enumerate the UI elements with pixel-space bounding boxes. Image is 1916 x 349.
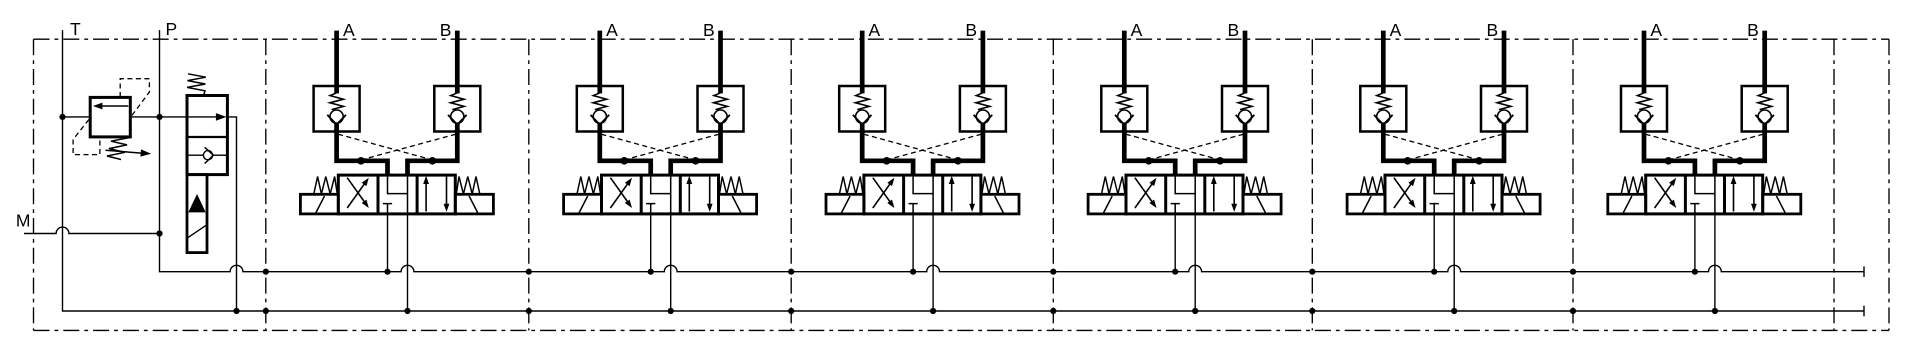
section 4: valve centre position (A-B-T joined, P blocked) [1171, 175, 1196, 214]
section divider 2 (dash-dot) [528, 39, 530, 330]
section 4: work port A line [1122, 31, 1127, 86]
section 4: junction dot on A line [1145, 157, 1153, 165]
section divider 1 (dash-dot) [265, 39, 267, 330]
section 4: pilot line A to B-side junction (dashed) [1126, 134, 1220, 160]
section 5: pilot line B to A-side junction (dashed) [1408, 134, 1503, 160]
section 1 port B: shock/anti-cavitation valve box [434, 86, 480, 132]
section 6: left solenoid box [1608, 194, 1646, 214]
section 4 port A: outlet stub [1122, 124, 1127, 133]
section 5 port B: port stub into box [1502, 85, 1507, 93]
section 1: valve centre position (A-B-T joined, P blocked) [383, 175, 408, 214]
section 6: valve left position crossed-flow arrows [1655, 184, 1672, 208]
divider 3 dot on P rail [788, 269, 794, 275]
T port line and tank return rail [63, 30, 1865, 311]
junction dot on P line [156, 114, 162, 120]
section 6: valve right position straight-flow arrows [1733, 184, 1735, 212]
section 4: valve left position crossed-flow arrows [1135, 184, 1152, 208]
section 6: P supply line to pressure rail [1694, 214, 1696, 272]
section 5 port A: relief spring [1377, 93, 1391, 110]
section 3: valve left position crossed-flow arrows [873, 184, 890, 208]
section 1: junction dot on A line [357, 157, 365, 165]
section 3: valve centre position (A-B-T joined, P blocked) [909, 175, 934, 214]
section 1: valve right position straight-flow arrows [425, 184, 427, 212]
divider 3 dot on T rail [788, 308, 794, 314]
svg-text:A: A [343, 20, 355, 40]
section divider 6 (dash-dot) [1572, 39, 1574, 330]
inlet outlet line to tank rail [227, 117, 236, 311]
section 1 port A: port stub into box [334, 85, 339, 93]
tank rail end plug [1863, 306, 1865, 317]
section 4 port A: shock/anti-cavitation valve box [1101, 86, 1147, 132]
svg-text:A: A [869, 20, 881, 40]
section 6 port B: port stub into box [1762, 85, 1767, 93]
section 2 port B: outlet stub [718, 124, 723, 133]
section 5 port A: outlet stub [1381, 124, 1386, 133]
section 6 port A: port stub into box [1642, 85, 1647, 93]
inlet element spring on top [187, 74, 206, 95]
relief valve port to P line [130, 116, 159, 118]
relief valve pilot line upper (dashed) [120, 79, 149, 117]
section 4: junction dot on B line [1216, 157, 1224, 165]
section 6 port A: relief spring [1637, 93, 1651, 110]
section 4: thick work line B to valve [1195, 129, 1245, 176]
svg-text:A: A [1390, 20, 1402, 40]
svg-text:P: P [165, 19, 177, 39]
section 4: left solenoid box [1088, 194, 1126, 214]
section 6: 4/3 directional valve body [1646, 175, 1763, 214]
section 3: right solenoid box [981, 194, 1019, 214]
section 3: work port A line [860, 31, 865, 86]
svg-text:B: B [965, 20, 977, 40]
svg-text:B: B [1486, 20, 1498, 40]
section 3 port B: relief spring [976, 93, 990, 110]
section 6: valve centre position (A-B-T joined, P blocked) [1690, 175, 1715, 214]
section 2 port B: shock/anti-cavitation valve box [698, 86, 744, 132]
section 6: right return spring [1764, 177, 1788, 195]
section 3 port B: outlet stub [981, 124, 986, 133]
section 6 port B: relief spring [1758, 93, 1772, 110]
section 1 port B: check ball circle [451, 110, 464, 123]
divider 1 dot on T rail [263, 308, 269, 314]
section 6: right solenoid box [1763, 194, 1801, 214]
section 5: thick work line B to valve [1454, 129, 1504, 176]
divider 4 dot on P rail [1050, 269, 1056, 275]
section 1: work port B line [455, 31, 460, 86]
section 4 port B: check valve seat [1236, 115, 1255, 125]
section 5: junction dot on B line [1475, 157, 1483, 165]
section 5: valve centre position (A-B-T joined, P blocked) [1430, 175, 1455, 214]
section divider 5 (dash-dot) [1311, 39, 1313, 330]
section 1: T return line to tank rail [407, 214, 409, 311]
section 4 port B: shock/anti-cavitation valve box [1222, 86, 1268, 132]
section 2: pilot line B to A-side junction (dashed) [624, 134, 719, 160]
section 4 port B: outlet stub [1243, 124, 1248, 133]
section 1: right return spring [456, 177, 480, 195]
section 2: junction dot on A line [620, 157, 628, 165]
inlet pilot element drain diagonal [187, 225, 206, 238]
section 3 port A: check valve seat [853, 115, 872, 125]
section 1 port A: check valve seat [327, 115, 346, 125]
svg-text:T: T [70, 19, 81, 39]
section 1: valve left position crossed-flow arrows [347, 184, 364, 208]
svg-text:A: A [606, 20, 618, 40]
svg-text:M: M [16, 211, 31, 231]
inlet check valve line [187, 154, 203, 156]
section 4: T return line to tank rail [1194, 214, 1196, 311]
svg-text:B: B [703, 20, 715, 40]
section 6: T return line to tank rail [1714, 214, 1716, 311]
divider 6 dot on T rail [1570, 308, 1576, 314]
section divider 3 (dash-dot) [790, 39, 792, 330]
divider 5 dot on T rail [1309, 308, 1315, 314]
P port line and pressure rail (with crossover hops) [160, 30, 1865, 272]
section 1 port B: relief spring [451, 93, 465, 110]
section 2: work port B line [718, 31, 723, 86]
section 2: valve right position straight-flow arrows [688, 184, 690, 212]
inlet pilot element narrow box [187, 175, 207, 253]
section 1: P supply line to pressure rail [387, 214, 389, 272]
section 4 port B: relief spring [1238, 93, 1252, 110]
section 5: right return spring [1503, 177, 1527, 195]
section 2: thick work line A to valve [600, 129, 651, 176]
section 6: thick work line A to valve [1644, 129, 1695, 176]
inlet element internal divider [187, 136, 227, 138]
pressure rail end plug [1863, 266, 1865, 277]
section 2: right solenoid box [719, 194, 757, 214]
section 3: thick work line B to valve [933, 129, 983, 176]
section 5 port B: check ball circle [1497, 110, 1510, 123]
section 5: pilot line A to B-side junction (dashed) [1385, 134, 1479, 160]
section 3: work port B line [981, 31, 986, 86]
relief valve drain pilot lower (dashed) [73, 120, 100, 155]
section 5: left return spring [1361, 177, 1385, 195]
section 2 port A: relief spring [593, 93, 607, 110]
section 2 port B: port stub into box [718, 85, 723, 93]
relief valve port to T line [63, 116, 91, 118]
section 3 port A: port stub into box [860, 85, 865, 93]
divider 1 dot on P rail [263, 269, 269, 275]
section 4: work port B line [1243, 31, 1248, 86]
section 4: valve right position straight-flow arrows [1213, 184, 1215, 212]
section 1 port B: check valve seat [448, 115, 467, 125]
section 2: left return spring [577, 177, 601, 195]
section 6: pilot line B to A-side junction (dashed) [1668, 134, 1763, 160]
section 3 port A: shock/anti-cavitation valve box [839, 86, 885, 132]
section 5: work port A line [1381, 31, 1386, 86]
section 1 port A: relief spring [330, 93, 344, 110]
section 3 port B: check ball circle [976, 110, 989, 123]
section 4 port A: port stub into box [1122, 85, 1127, 93]
section 3: valve right position straight-flow arrows [951, 184, 953, 212]
svg-text:B: B [440, 20, 452, 40]
section 2: valve left position crossed-flow arrows [610, 184, 627, 208]
relief valve adjustment arrow [106, 150, 144, 153]
inlet check valve circle [203, 151, 212, 160]
section 6: left return spring [1621, 177, 1645, 195]
section 2: 4/3 directional valve body [602, 175, 719, 214]
section 6 port A: check valve seat [1635, 115, 1654, 125]
section 1: right solenoid box [455, 194, 493, 214]
section 6: thick work line B to valve [1715, 129, 1765, 176]
section 4 port A: check ball circle [1118, 110, 1131, 123]
section 4 port B: port stub into box [1243, 85, 1248, 93]
section 6 port A: check ball circle [1637, 110, 1650, 123]
section 2 port A: check valve seat [591, 115, 610, 125]
section 1: work port A line [334, 31, 339, 86]
section 5 port A: check valve seat [1374, 115, 1393, 125]
section 4: pilot line B to A-side junction (dashed) [1149, 134, 1244, 160]
section 6 port B: shock/anti-cavitation valve box [1742, 86, 1788, 132]
pilot-operated relief valve body [90, 97, 130, 136]
section 5: 4/3 directional valve body [1385, 175, 1502, 214]
section 1 port A: shock/anti-cavitation valve box [314, 86, 360, 132]
section 2 port A: shock/anti-cavitation valve box [577, 86, 623, 132]
section 4: right return spring [1244, 177, 1268, 195]
svg-text:B: B [1227, 20, 1239, 40]
section 3 port B: port stub into box [981, 85, 986, 93]
divider 6 dot on P rail [1570, 269, 1576, 275]
section 2: junction dot on B line [692, 157, 700, 165]
section 4: left return spring [1102, 177, 1126, 195]
junction dot M line to P line [156, 230, 162, 236]
frame right edge [1888, 39, 1890, 330]
section 2 port A: outlet stub [597, 124, 602, 133]
section 3 port A: outlet stub [860, 124, 865, 133]
section 6: pilot line A to B-side junction (dashed) [1646, 134, 1740, 160]
section 2: work port A line [597, 31, 602, 86]
section 4: P supply line to pressure rail [1174, 214, 1176, 272]
section 3: junction dot on A line [883, 157, 891, 165]
section 6 port B: check ball circle [1758, 110, 1771, 123]
svg-text:A: A [1131, 20, 1143, 40]
section 2: valve centre position (A-B-T joined, P blocked) [646, 175, 671, 214]
section 3: thick work line A to valve [862, 129, 913, 176]
section 3 port A: relief spring [855, 93, 869, 110]
section 6: work port A line [1642, 31, 1647, 86]
svg-text:A: A [1650, 20, 1662, 40]
section 6 port A: shock/anti-cavitation valve box [1621, 86, 1667, 132]
inlet check valve seat [205, 147, 214, 163]
junction dot inlet outlet to tank rail [233, 308, 239, 314]
section 1 port B: port stub into box [455, 85, 460, 93]
section 2: pilot line A to B-side junction (dashed) [601, 134, 695, 160]
section 1: 4/3 directional valve body [338, 175, 455, 214]
section 6 port A: outlet stub [1642, 124, 1647, 133]
section 5: thick work line A to valve [1383, 129, 1434, 176]
section 3 port B: shock/anti-cavitation valve box [960, 86, 1006, 132]
section 2 port A: port stub into box [597, 85, 602, 93]
section 3 port A: check ball circle [856, 110, 869, 123]
inlet pilot element triangle [188, 194, 205, 212]
section 4 port B: check ball circle [1238, 110, 1251, 123]
section 5: right solenoid box [1502, 194, 1540, 214]
section 5: junction dot on A line [1404, 157, 1412, 165]
inlet element flow arrow P in [160, 116, 218, 118]
section 4: 4/3 directional valve body [1126, 175, 1243, 214]
section 5 port A: check ball circle [1377, 110, 1390, 123]
manifold block boundary (dash-dot frame) top edge [34, 38, 1890, 40]
section 6 port B: check valve seat [1755, 115, 1774, 125]
section 2 port A: check ball circle [593, 110, 606, 123]
section 6: junction dot on B line [1736, 157, 1744, 165]
section 5: valve left position crossed-flow arrows [1394, 184, 1411, 208]
section 1 port A: check ball circle [330, 110, 343, 123]
divider 2 dot on P rail [526, 269, 532, 275]
inlet element body [187, 96, 227, 175]
section 2 port B: check ball circle [714, 110, 727, 123]
section 3: 4/3 directional valve body [864, 175, 981, 214]
frame bottom edge [34, 329, 1890, 331]
section 1 port B: outlet stub [455, 124, 460, 133]
divider 2 dot on T rail [526, 308, 532, 314]
section 3: P supply line to pressure rail [912, 214, 914, 272]
relief valve flow arrow [102, 105, 128, 107]
section 4: right solenoid box [1243, 194, 1281, 214]
section 1: thick work line B to valve [408, 129, 458, 176]
frame left edge [33, 39, 35, 330]
section 2 port B: check valve seat [711, 115, 730, 125]
section 4 port A: check valve seat [1115, 115, 1134, 125]
section 5 port A: port stub into box [1381, 85, 1386, 93]
section 3: junction dot on B line [954, 157, 962, 165]
section 3: right return spring [982, 177, 1006, 195]
section 3: T return line to tank rail [932, 214, 934, 311]
section 5 port B: relief spring [1497, 93, 1511, 110]
section 3: pilot line B to A-side junction (dashed) [887, 134, 982, 160]
section 3: left return spring [839, 177, 863, 195]
section 3: left solenoid box [826, 194, 864, 214]
section 2: right return spring [720, 177, 744, 195]
section 3 port B: check valve seat [974, 115, 993, 125]
section 2: left solenoid box [564, 194, 602, 214]
divider 4 dot on T rail [1050, 308, 1056, 314]
svg-text:B: B [1747, 20, 1759, 40]
M gauge line (hops over T line) [24, 227, 160, 233]
section 2 port B: relief spring [714, 93, 728, 110]
section 1: pilot line B to A-side junction (dashed) [361, 134, 456, 160]
section 1: left solenoid box [300, 194, 338, 214]
section 6: junction dot on A line [1665, 157, 1673, 165]
divider 5 dot on P rail [1309, 269, 1315, 275]
section 5: P supply line to pressure rail [1433, 214, 1435, 272]
junction dot on T line [59, 114, 65, 120]
section 5: work port B line [1502, 31, 1507, 86]
section 2: P supply line to pressure rail [650, 214, 652, 272]
section 1: thick work line A to valve [337, 129, 388, 176]
section 5: valve right position straight-flow arrows [1472, 184, 1474, 212]
section 2: T return line to tank rail [670, 214, 672, 311]
section 5: T return line to tank rail [1453, 214, 1455, 311]
section 5 port B: outlet stub [1502, 124, 1507, 133]
section 3: pilot line A to B-side junction (dashed) [864, 134, 958, 160]
section 6 port B: outlet stub [1762, 124, 1767, 133]
section 1: junction dot on B line [429, 157, 437, 165]
section 5: left solenoid box [1347, 194, 1385, 214]
section divider 7 (dash-dot) [1833, 39, 1835, 330]
relief valve adjustable spring [107, 138, 130, 160]
section 4 port A: relief spring [1118, 93, 1132, 110]
section 1: pilot line A to B-side junction (dashed) [338, 134, 432, 160]
section 4: thick work line A to valve [1124, 129, 1175, 176]
section 6: work port B line [1762, 31, 1767, 86]
section 5 port B: check valve seat [1495, 115, 1514, 125]
section 1: left return spring [314, 177, 338, 195]
section 5 port A: shock/anti-cavitation valve box [1360, 86, 1406, 132]
section 2: thick work line B to valve [671, 129, 721, 176]
section 5 port B: shock/anti-cavitation valve box [1481, 86, 1527, 132]
section divider 4 (dash-dot) [1052, 39, 1054, 330]
section 1 port A: outlet stub [334, 124, 339, 133]
